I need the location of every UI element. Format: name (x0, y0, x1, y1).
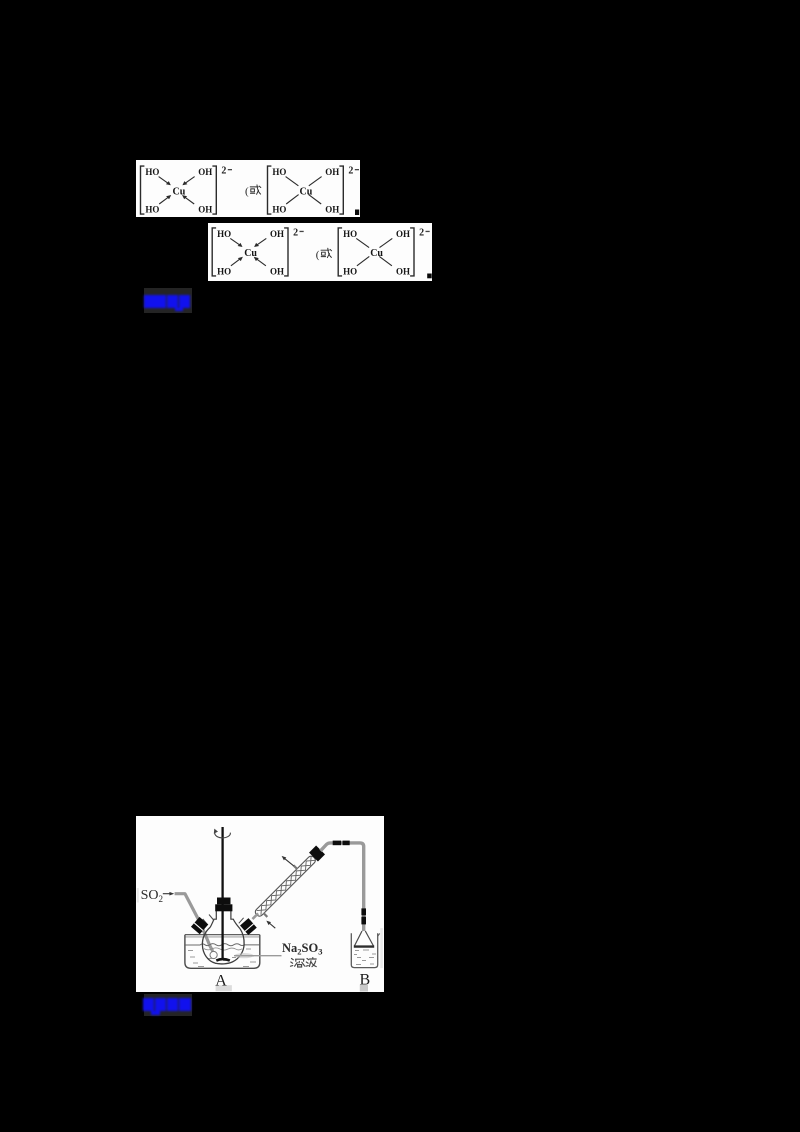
water in arrow (269, 923, 275, 928)
beaker water dashes (355, 949, 359, 951)
bath water surface (185, 943, 259, 945)
left bracket (141, 166, 145, 214)
pointer line to Na2SO3 (234, 954, 282, 956)
gray smudge (234, 953, 253, 958)
left bracket (212, 228, 216, 276)
rotation arrow (215, 831, 231, 838)
svg-text:OH: OH (270, 266, 284, 276)
formula image box 2 (208, 223, 433, 281)
apparatus figure box (136, 816, 384, 992)
svg-text:2: 2 (293, 227, 298, 238)
tube connector dashes horizontal (333, 840, 342, 845)
right bracket (410, 228, 414, 276)
center stopper (217, 897, 231, 904)
water out arrow (284, 858, 293, 865)
svg-text:B: B (359, 971, 370, 988)
complex ion structure S4 (plain bonds) (338, 227, 430, 276)
svg-text:HO: HO (272, 204, 286, 214)
svg-text:OH: OH (270, 229, 284, 239)
right bracket (212, 166, 216, 214)
text (or (245, 185, 261, 198)
beaker B (351, 933, 377, 967)
dative bonds to Cu (230, 238, 239, 244)
dative bonds to Cu (159, 176, 168, 182)
svg-text:HO: HO (145, 204, 159, 214)
delivery tube (320, 843, 363, 931)
svg-text:OH: OH (396, 266, 410, 276)
formula image box 1 (136, 160, 360, 218)
complex ion structure S2 (plain bonds) (268, 165, 360, 214)
water dashes (188, 949, 193, 951)
right bracket (284, 228, 288, 276)
svg-text:HO: HO (217, 229, 231, 239)
period mark (427, 274, 432, 279)
gas outlet circle (210, 951, 217, 958)
left neck stopper (191, 917, 208, 934)
flask center neck (210, 910, 216, 927)
inverted funnel (354, 931, 373, 946)
rongye (solution) glyphs (290, 957, 316, 966)
svg-text:HO: HO (343, 229, 357, 239)
condenser (246, 844, 327, 925)
blue tag 2 (144, 994, 193, 1017)
complex ion structure S3 (dative arrows) (212, 227, 304, 276)
svg-text:HO: HO (343, 266, 357, 276)
stirrer paddle (216, 959, 230, 961)
left bracket (338, 228, 342, 276)
svg-text:OH: OH (198, 167, 212, 177)
left bracket (268, 166, 272, 214)
flask liquid line (204, 948, 242, 950)
svg-text:2: 2 (221, 165, 226, 176)
SO2 arrow (163, 892, 170, 894)
artifact stripe left (137, 888, 139, 903)
right bracket (339, 166, 343, 214)
flask left neck (203, 919, 208, 925)
svg-text:2: 2 (348, 165, 353, 176)
flask right neck (239, 917, 244, 923)
text (or (316, 248, 332, 261)
svg-text:Na2SO3: Na2SO3 (282, 941, 322, 956)
plain bonds to Cu (286, 176, 299, 185)
svg-text:HO: HO (145, 167, 159, 177)
stirrer rod (221, 827, 223, 960)
blue tag 1 (144, 288, 192, 313)
svg-text:A: A (215, 972, 227, 989)
plain bonds to Cu (356, 238, 369, 247)
svg-text:SO2: SO2 (140, 888, 162, 904)
right neck stopper (240, 918, 257, 935)
flask A bulb (202, 927, 244, 964)
SO2 inlet tube (174, 893, 212, 951)
svg-text:OH: OH (396, 229, 410, 239)
svg-text:(: ( (316, 249, 320, 261)
complex ion structure S1 (dative arrows) (141, 165, 233, 214)
water bath beaker (185, 934, 260, 968)
period mark (355, 209, 359, 215)
label B underline block (360, 985, 368, 992)
svg-text:HO: HO (272, 167, 286, 177)
svg-text:OH: OH (325, 204, 339, 214)
label A underline block (215, 985, 231, 991)
svg-text:(: ( (245, 185, 249, 197)
svg-text:HO: HO (217, 266, 231, 276)
tube connector dashes vertical (361, 908, 366, 915)
svg-text:2: 2 (419, 227, 424, 238)
svg-text:OH: OH (325, 167, 339, 177)
svg-text:OH: OH (198, 204, 212, 214)
